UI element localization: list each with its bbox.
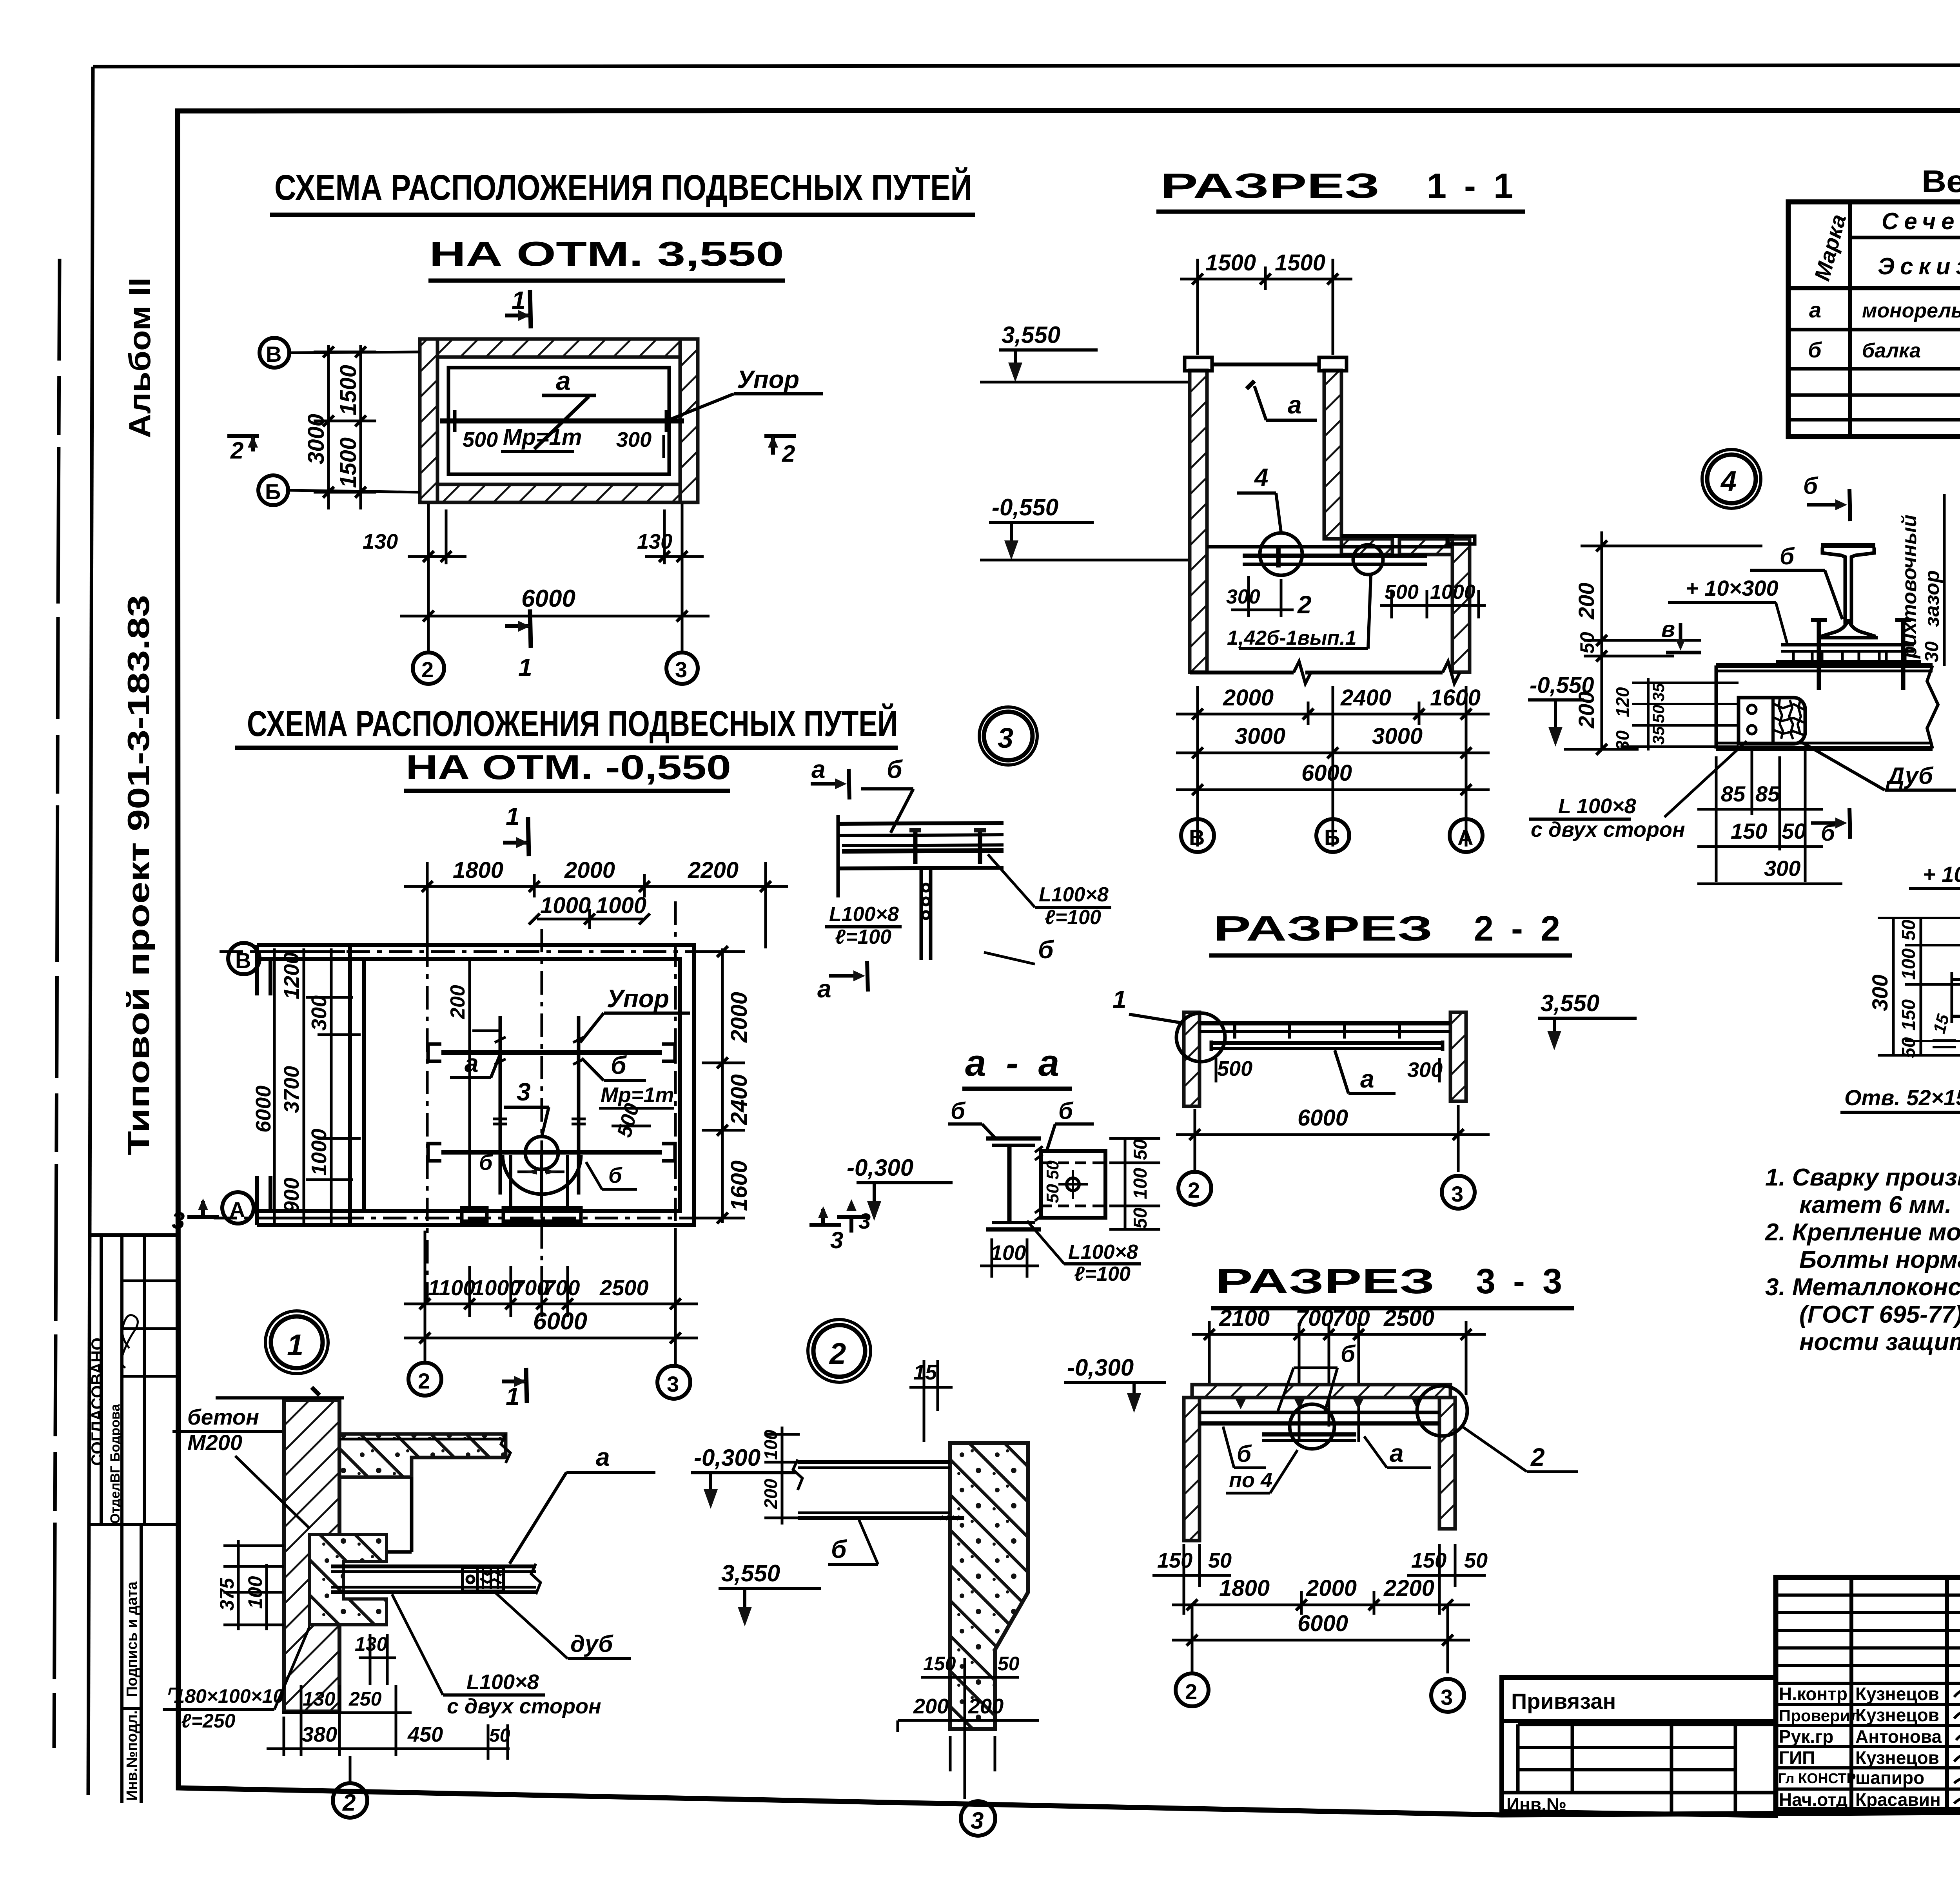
svg-text:⌜180×100×10: ⌜180×100×10 [165, 1685, 284, 1707]
svg-text:1500: 1500 [1205, 250, 1256, 276]
pad plates between [1776, 645, 1921, 662]
svg-text:2000: 2000 [1306, 1575, 1357, 1601]
svg-text:500: 500 [463, 428, 498, 451]
right lower chamber: floor slabs [1341, 536, 1454, 555]
hanger ticks [1235, 1023, 1399, 1039]
left dims 200/50/200 [1564, 531, 1762, 755]
svg-text:300: 300 [1867, 975, 1892, 1011]
svg-text:ℓ=100: ℓ=100 [1045, 906, 1101, 929]
svg-text:2200: 2200 [688, 857, 739, 883]
svg-text:100: 100 [244, 1576, 266, 1609]
svg-text:700: 700 [543, 1275, 580, 1300]
verticals [1848, 202, 1852, 437]
svg-text:300: 300 [1226, 586, 1260, 608]
section mark 3 right bottom [809, 1206, 843, 1253]
svg-text:150: 150 [1411, 1549, 1446, 1572]
svg-text:1: 1 [287, 1329, 303, 1362]
svg-text:L100×8: L100×8 [1068, 1241, 1138, 1264]
bottom dims 85 85 / 150 50 / 300 [1697, 749, 1842, 884]
svg-text:Привязан: Привязан [1511, 1689, 1616, 1713]
svg-text:3: 3 [517, 1078, 531, 1106]
bottom dims 150/50 pairs [1152, 1544, 1488, 1615]
svg-text:100: 100 [991, 1241, 1026, 1265]
svg-text:1000: 1000 [540, 893, 591, 918]
svg-text:монорельс: монорельс [1862, 299, 1960, 322]
svg-text:-0,300: -0,300 [694, 1445, 760, 1471]
section mark 1 top [503, 802, 529, 856]
bolt plate with oak pad [1739, 698, 1805, 744]
axis circle 2 [413, 504, 444, 684]
section mark 3 left bottom [172, 1198, 219, 1234]
svg-text:В: В [1189, 825, 1205, 850]
svg-text:б: б [1341, 1341, 1356, 1367]
svg-text:СОГЛАСОВАНО: СОГЛАСОВАНО [88, 1338, 106, 1466]
svg-text:Б: Б [265, 479, 281, 504]
svg-text:3: 3 [675, 657, 687, 682]
beam a [1211, 1041, 1443, 1045]
svg-text:50: 50 [998, 1653, 1020, 1675]
svg-text:3: 3 [1441, 1685, 1453, 1709]
svg-text:2: 2 [1188, 1178, 1200, 1202]
svg-text:4: 4 [1254, 463, 1269, 491]
svg-text:100: 100 [1130, 1168, 1151, 1199]
beam plate top view [838, 823, 1004, 824]
svg-text:50: 50 [1898, 919, 1919, 941]
svg-text:а: а [811, 755, 826, 783]
wall extension top-left [257, 943, 350, 947]
svg-text:б: б [608, 1163, 622, 1187]
svg-text:а: а [1809, 297, 1821, 322]
big circle 1 [271, 1316, 323, 1368]
left wall [1184, 1398, 1200, 1541]
svg-text:а: а [1360, 1065, 1374, 1093]
svg-text:3: 3 [998, 723, 1013, 754]
svg-text:300: 300 [1407, 1058, 1443, 1082]
axis circle B [260, 338, 420, 368]
svg-text:Нач.отд: Нач.отд [1779, 1789, 1847, 1810]
svg-text:2000: 2000 [564, 857, 615, 883]
right wall [1450, 1012, 1466, 1101]
niche concrete block [310, 1534, 387, 1625]
svg-text:1 - 1: 1 - 1 [1427, 167, 1517, 206]
svg-text:3000: 3000 [303, 414, 329, 464]
svg-text:1. Сварку производить электр: 1. Сварку производить электродами Э42 (Г… [1765, 1164, 1960, 1191]
signer rows [1776, 1682, 1960, 1685]
svg-text:3000: 3000 [1372, 723, 1423, 749]
bottom dims [898, 1653, 1039, 1799]
svg-text:2100: 2100 [1219, 1305, 1270, 1331]
svg-text:2400: 2400 [726, 1074, 752, 1125]
svg-text:б: б [611, 1051, 627, 1079]
svg-text:б: б [1808, 337, 1822, 362]
svg-text:Кузнецов: Кузнецов [1855, 1684, 1939, 1704]
walls: inner contour [364, 959, 680, 1211]
svg-text:3: 3 [1451, 1182, 1463, 1206]
bottom dims [267, 1633, 510, 1760]
sidebar signature [122, 1315, 138, 1368]
axis dash-dot lines [220, 950, 725, 953]
svg-text:300: 300 [616, 428, 652, 451]
svg-text:б: б [831, 1535, 848, 1563]
monorail [440, 419, 684, 424]
svg-text:50: 50 [1649, 705, 1668, 723]
bolts [913, 831, 918, 864]
svg-text:35: 35 [1649, 726, 1668, 745]
svg-text:300: 300 [1764, 856, 1800, 881]
axis circles [1181, 819, 1483, 852]
table outline [1788, 202, 1960, 437]
left dims 100 200 [760, 1427, 800, 1525]
svg-text:Типовой проект 901-3-183.83: Типовой проект 901-3-183.83 [121, 595, 156, 1155]
horizontals [1850, 236, 1960, 239]
axis circles [1176, 1673, 1209, 1706]
svg-text:Мр=1т: Мр=1т [503, 424, 582, 450]
svg-text:700: 700 [1332, 1305, 1370, 1331]
svg-text:Красавин: Красавин [1855, 1789, 1941, 1810]
svg-text:(ГОСТ 695-77) за два раза.: (ГОСТ 695-77) за два раза. На ездовые по… [1799, 1301, 1960, 1328]
top cap [1185, 357, 1212, 371]
svg-text:Упор: Упор [607, 984, 669, 1013]
left columns verticals [1849, 1577, 1853, 1809]
left wall [1184, 1012, 1200, 1106]
svg-text:зазор: зазор [1921, 570, 1944, 627]
svg-text:50: 50 [1898, 1037, 1919, 1058]
svg-text:30: 30 [1612, 730, 1633, 750]
svg-text:б: б [479, 1150, 493, 1175]
wall top tick [216, 1396, 344, 1399]
svg-text:Рук.гр: Рук.гр [1779, 1726, 1833, 1747]
svg-text:3700: 3700 [280, 1066, 303, 1113]
flag a [542, 394, 596, 397]
svg-text:в: в [1661, 616, 1675, 642]
svg-text:Мр=1т: Мр=1т [601, 1083, 674, 1107]
svg-text:В: В [266, 342, 281, 366]
svg-text:1: 1 [506, 802, 520, 830]
svg-text:200: 200 [913, 1695, 949, 1718]
svg-text:3. Металлоконструкции окрасит: 3. Металлоконструкции окрасить масляной … [1765, 1274, 1960, 1301]
base plates bottom [462, 1208, 487, 1221]
svg-text:Гл КОНСТР: Гл КОНСТР [1778, 1770, 1856, 1786]
svg-text:2500: 2500 [599, 1275, 649, 1300]
axis circle 3 [666, 504, 698, 684]
big circle 2 [813, 1325, 865, 1377]
svg-text:ℓ=100: ℓ=100 [835, 926, 891, 948]
circle 2 pointer [333, 1783, 367, 1818]
svg-text:по 4: по 4 [1229, 1468, 1272, 1492]
svg-text:50: 50 [1043, 1160, 1062, 1180]
level 3,550 [980, 322, 1190, 382]
row 3: 6000 [1176, 789, 1490, 791]
monorail box section (a) [1041, 1151, 1105, 1218]
svg-text:Антонова: Антонова [1855, 1726, 1942, 1747]
svg-text:а: а [1390, 1439, 1404, 1467]
svg-text:2. Крепление монорельсов к: 2. Крепление монорельсов к балкам – болт… [1765, 1219, 1960, 1246]
svg-text:б: б [951, 1098, 966, 1124]
svg-text:3: 3 [971, 1807, 984, 1834]
bottom dims [1176, 685, 1490, 847]
svg-text:РАЗРЕЗ: РАЗРЕЗ [1215, 1262, 1435, 1301]
bolts through pad [1817, 618, 1821, 690]
axis circles 2 3 [1178, 1172, 1211, 1205]
svg-text:6000: 6000 [521, 585, 575, 612]
svg-text:а: а [1288, 391, 1302, 419]
top dims 2100 700 700 2500 [1192, 1305, 1486, 1442]
top dims 1800 2000 2200 [404, 857, 788, 948]
svg-text:Ведомость: Ведомость [1922, 164, 1960, 199]
I-beam section (б) [986, 1138, 1041, 1229]
svg-text:100: 100 [1898, 948, 1919, 980]
svg-text:А: А [229, 1197, 245, 1222]
right wall [1439, 1398, 1455, 1529]
dims 1800 2000 2200 [1172, 1575, 1470, 1673]
svg-text:250: 250 [348, 1688, 382, 1710]
svg-text:Подпись и дата: Подпись и дата [124, 1581, 140, 1697]
svg-text:L100×8: L100×8 [829, 903, 899, 926]
svg-text:а - а: а - а [965, 1042, 1064, 1084]
section mark 3 [837, 1215, 868, 1219]
svg-text:Н.контр: Н.контр [1779, 1684, 1847, 1704]
monorail piece [1262, 1432, 1356, 1437]
svg-text:15: 15 [913, 1361, 937, 1384]
middle wall (tall, right of left chamber) [1319, 357, 1347, 539]
svg-text:2: 2 [1297, 591, 1312, 619]
svg-text:+ 10×300: + 10×300 [1923, 862, 1960, 886]
svg-text:3 - 3: 3 - 3 [1476, 1262, 1566, 1301]
svg-text:50: 50 [1130, 1207, 1151, 1229]
svg-text:а: а [465, 1049, 479, 1077]
right band [680, 339, 698, 502]
svg-text:100: 100 [760, 1430, 781, 1460]
svg-text:6000: 6000 [1298, 1611, 1348, 1636]
detail circle 2 [1353, 545, 1383, 575]
left dims 375 100 [216, 1540, 284, 1630]
svg-text:Кузнецов: Кузнецов [1855, 1748, 1939, 1768]
bottom dims 1100 1000 700 700 2500 [404, 1231, 698, 1364]
beam band behind [1952, 978, 1960, 981]
stamp outline [1776, 1577, 1960, 1809]
svg-text:ℓ=250: ℓ=250 [181, 1710, 236, 1732]
section mark 1 top [505, 286, 531, 328]
signatures [1954, 1688, 1960, 1698]
wall extension bottom-left [257, 1209, 364, 1213]
monorail upper [428, 1037, 675, 1067]
svg-text:2: 2 [782, 441, 795, 467]
svg-text:200: 200 [968, 1695, 1004, 1718]
svg-text:3,550: 3,550 [1002, 322, 1060, 348]
svg-text:1000: 1000 [1430, 581, 1475, 604]
svg-text:6000: 6000 [252, 1086, 275, 1133]
web below (T) [920, 868, 923, 960]
svg-text:1500: 1500 [336, 437, 361, 488]
svg-text:35: 35 [1649, 683, 1668, 702]
svg-text:2: 2 [1530, 1443, 1545, 1471]
outer border top [93, 65, 1960, 67]
beams (vertical) in plan [499, 1016, 502, 1195]
svg-text:900: 900 [280, 1178, 303, 1213]
right dims 50 100 50 [1043, 1138, 1160, 1229]
svg-text:120: 120 [1612, 687, 1633, 717]
bolt plate with oak on beam [463, 1568, 504, 1591]
svg-text:+ 10×300: + 10×300 [1686, 576, 1779, 600]
svg-text:Отв. 52×15: Отв. 52×15 [1844, 1085, 1960, 1110]
section mark 2 right [764, 436, 796, 467]
inner contour [448, 368, 669, 474]
svg-text:Дуб: Дуб [1886, 763, 1934, 789]
svg-text:200: 200 [1574, 583, 1599, 620]
level -0,550 [980, 494, 1190, 560]
svg-text:3000: 3000 [1235, 723, 1285, 749]
top dims 1500 1500 [1180, 250, 1352, 355]
svg-text:700: 700 [1296, 1305, 1334, 1331]
inner grid [1518, 1723, 1776, 1726]
svg-text:1: 1 [518, 653, 532, 682]
svg-text:1600: 1600 [1430, 685, 1481, 711]
svg-text:130: 130 [303, 1688, 336, 1710]
axis circle 2 [408, 1363, 441, 1396]
detail circles [1290, 1404, 1334, 1449]
svg-text:200: 200 [760, 1479, 781, 1509]
svg-text:Эскиз: Эскиз [1878, 253, 1960, 279]
axis circle B [228, 943, 260, 974]
svg-text:а: а [817, 975, 831, 1003]
svg-text:1500: 1500 [336, 365, 361, 415]
big circle 4 [1707, 455, 1756, 503]
outer border left [88, 67, 93, 1795]
svg-text:2400: 2400 [1340, 685, 1391, 711]
svg-text:с двух сторон: с двух сторон [447, 1695, 601, 1718]
svg-text:375: 375 [216, 1577, 238, 1611]
svg-text:2 - 2: 2 - 2 [1474, 909, 1564, 948]
svg-text:НА ОТМ. 3,550: НА ОТМ. 3,550 [429, 234, 784, 273]
slab with hatch [1192, 1385, 1450, 1398]
svg-text:Упор: Упор [737, 365, 799, 393]
svg-text:шапиро: шапиро [1855, 1767, 1924, 1788]
left wall [1185, 357, 1212, 672]
svg-text:1: 1 [1112, 985, 1127, 1013]
row 2: 3000 3000 [1176, 752, 1490, 754]
bottom dim 100 [980, 1265, 1039, 1267]
svg-text:СХЕМА РАСПОЛОЖЕНИЯ ПОДВЕСНЫ: СХЕМА РАСПОЛОЖЕНИЯ ПОДВЕСНЫХ ПУТЕЙ [247, 703, 898, 744]
dim 6000 bottom [404, 1308, 698, 1343]
svg-text:ности защитный слой не нан: ности защитный слой не наносится. [1799, 1329, 1960, 1356]
big circle 3 [984, 712, 1033, 760]
svg-text:50: 50 [1208, 1549, 1232, 1572]
svg-text:-0,550: -0,550 [992, 494, 1058, 520]
svg-text:РАЗРЕЗ: РАЗРЕЗ [1213, 909, 1433, 948]
svg-text:450: 450 [407, 1723, 443, 1746]
thin empty rows [1776, 1593, 1960, 1597]
svg-text:А: А [1457, 825, 1473, 850]
svg-text:3,550: 3,550 [1541, 990, 1599, 1016]
svg-text:а: а [596, 1443, 610, 1471]
svg-text:30: 30 [1922, 641, 1942, 662]
weld ticks row [1782, 662, 1915, 666]
svg-text:2500: 2500 [1383, 1305, 1434, 1331]
svg-text:130: 130 [637, 530, 672, 553]
svg-text:2: 2 [829, 1337, 846, 1370]
svg-text:1: 1 [512, 286, 526, 314]
svg-text:L100×8: L100×8 [1039, 883, 1109, 906]
svg-text:-0,550: -0,550 [1530, 673, 1594, 698]
small dims 300 / 500 1000 [1226, 576, 1486, 618]
svg-text:2: 2 [418, 1369, 430, 1393]
svg-text:2200: 2200 [1383, 1575, 1434, 1601]
svg-text:СХЕМА РАСПОЛОЖЕНИЯ ПОДВЕСНЫ: СХЕМА РАСПОЛОЖЕНИЯ ПОДВЕСНЫХ ПУТЕЙ [274, 167, 972, 208]
scan page edge [54, 259, 60, 1748]
top slab between walls [1212, 363, 1319, 366]
svg-text:1,42б-1вып.1: 1,42б-1вып.1 [1227, 627, 1357, 649]
svg-text:380: 380 [302, 1723, 337, 1746]
svg-text:130: 130 [355, 1633, 388, 1655]
svg-text:ГИП: ГИП [1779, 1748, 1815, 1768]
svg-text:дуб: дуб [570, 1631, 613, 1657]
svg-text:Кузнецов: Кузнецов [1855, 1705, 1939, 1725]
svg-text:Сечения: Сечения [1882, 208, 1960, 234]
svg-text:1600: 1600 [726, 1160, 752, 1211]
monorail lower [428, 1144, 675, 1161]
anchor triangles [1235, 1398, 1423, 1409]
bottom band [420, 484, 698, 502]
svg-text:1800: 1800 [453, 857, 503, 883]
svg-text:М200: М200 [187, 1430, 242, 1455]
svg-text:3: 3 [667, 1372, 679, 1396]
svg-text:РАЗРЕЗ: РАЗРЕЗ [1160, 167, 1380, 206]
svg-text:130: 130 [363, 530, 398, 553]
dim 6000 [400, 585, 710, 622]
svg-text:85: 85 [1721, 781, 1746, 806]
svg-text:500: 500 [1217, 1057, 1252, 1080]
brick wall vertical band [284, 1400, 339, 1711]
svg-text:В: В [235, 948, 251, 973]
svg-text:б: б [1803, 473, 1818, 499]
svg-text:-0,300: -0,300 [1067, 1354, 1134, 1381]
svg-text:катет 6 мм.: катет 6 мм. [1799, 1191, 1951, 1218]
svg-text:3,550: 3,550 [721, 1560, 780, 1586]
svg-text:150: 150 [923, 1653, 956, 1675]
svg-text:2: 2 [230, 437, 243, 464]
svg-text:2: 2 [1185, 1679, 1197, 1704]
svg-text:150: 150 [1898, 999, 1919, 1031]
main beam side view [1716, 665, 1938, 749]
circle 3 pointer [961, 1801, 995, 1836]
svg-text:1000: 1000 [307, 1129, 331, 1176]
svg-text:2000: 2000 [1223, 685, 1274, 711]
svg-text:1000: 1000 [596, 893, 646, 918]
svg-text:50: 50 [489, 1725, 510, 1746]
svg-text:50: 50 [1782, 819, 1806, 843]
equipment semicircle with legs [503, 1155, 581, 1194]
detail circle 3 on lower rail [525, 1137, 558, 1169]
svg-text:200: 200 [446, 985, 469, 1019]
axis circle Б [258, 475, 420, 505]
svg-text:3: 3 [172, 1207, 185, 1234]
svg-text:Инв.№подл.: Инв.№подл. [124, 1710, 140, 1801]
svg-text:50: 50 [1130, 1139, 1151, 1160]
wall outline with hatch: top band [420, 339, 698, 357]
detail circle 1 [1176, 1013, 1225, 1062]
svg-text:4: 4 [1720, 466, 1737, 497]
svg-text:НА ОТМ. -0,550: НА ОТМ. -0,550 [406, 748, 731, 787]
small dims left of plate [1612, 678, 1739, 750]
svg-text:L100×8: L100×8 [466, 1670, 539, 1694]
svg-text:Альбом II: Альбом II [122, 277, 157, 438]
svg-text:I: I [1274, 539, 1283, 574]
detail circle 4 (I in circle) [1260, 533, 1302, 575]
svg-text:500: 500 [1385, 581, 1419, 604]
svg-text:6000: 6000 [1298, 1105, 1348, 1131]
svg-text:1100: 1100 [428, 1275, 475, 1300]
svg-text:-0,300: -0,300 [847, 1155, 913, 1181]
